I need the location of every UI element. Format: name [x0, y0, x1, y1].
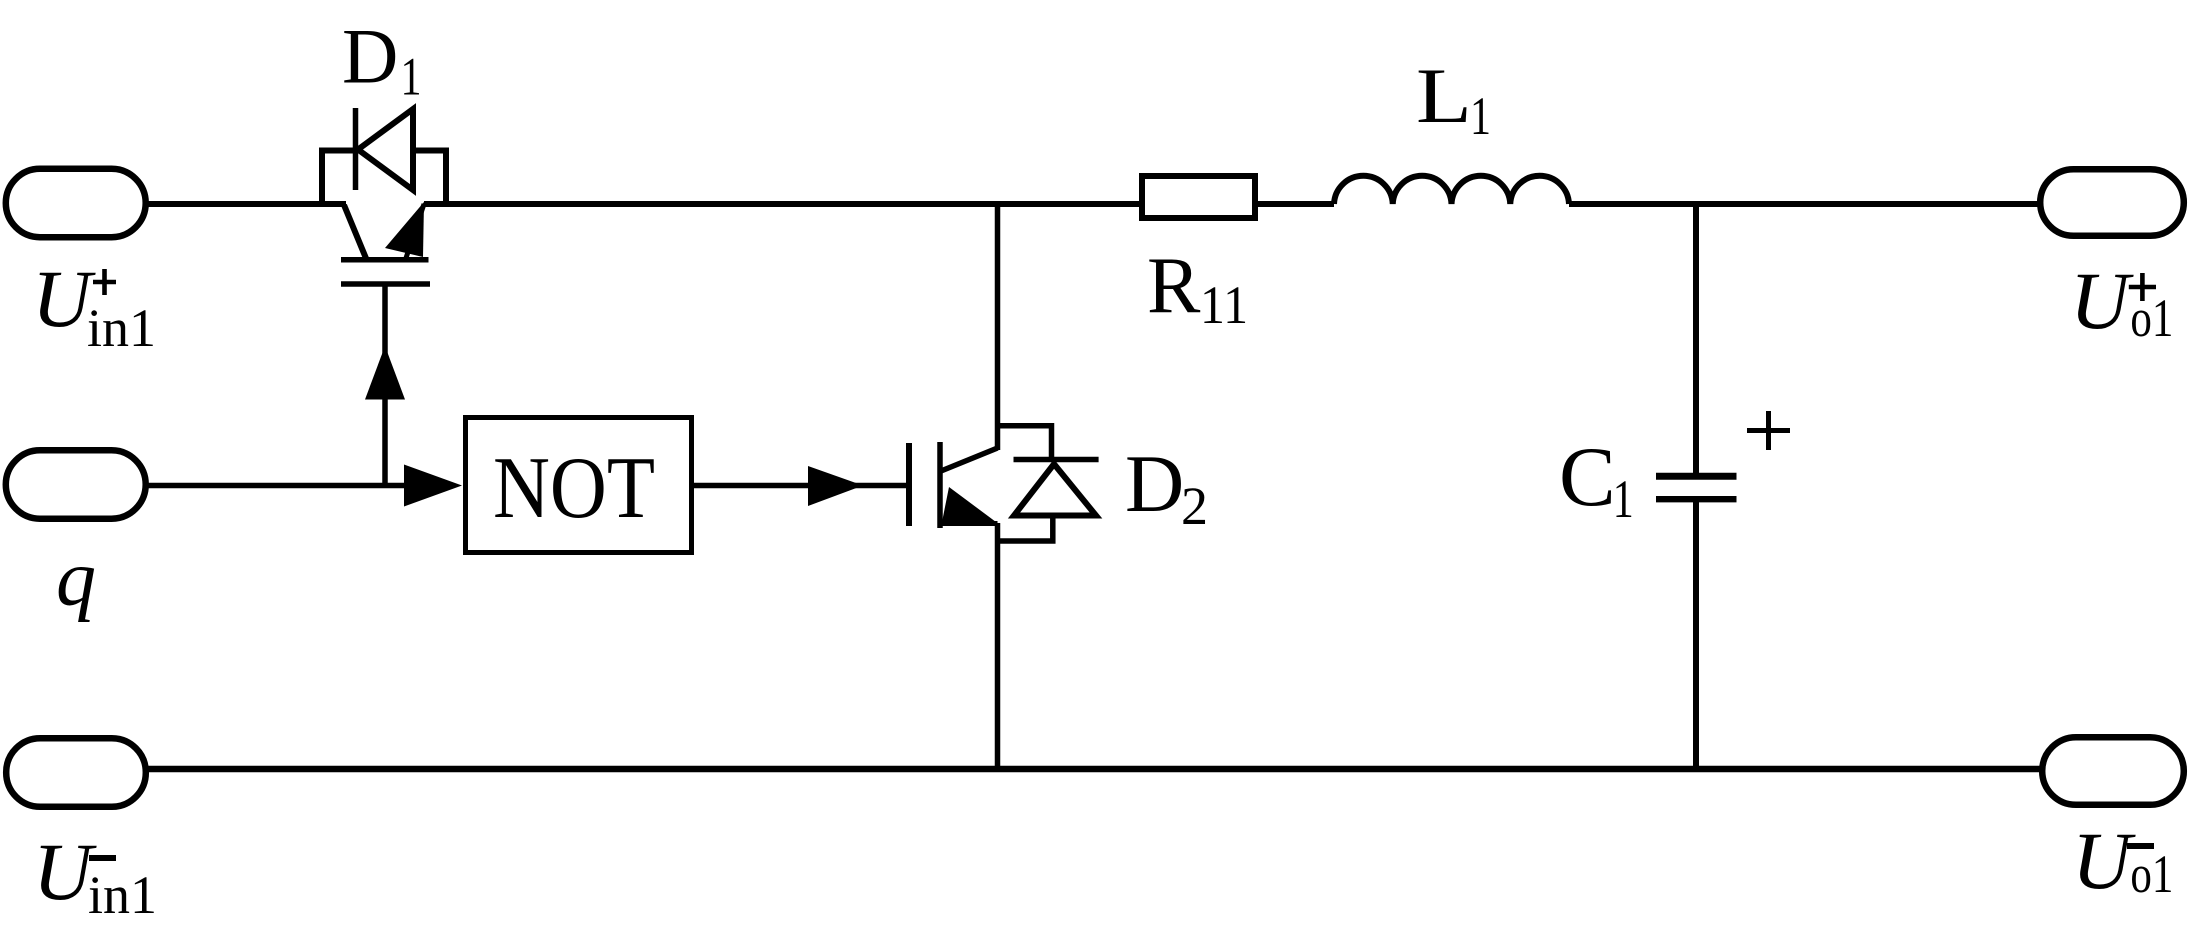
svg-text:1: 1	[401, 47, 422, 107]
diode D2	[998, 426, 1099, 541]
Q1 gate bar	[341, 281, 430, 287]
svg-text:NOT: NOT	[493, 440, 655, 537]
NOT gate box	[466, 418, 692, 553]
wire Q2 emitter	[995, 523, 1001, 772]
Q1 emitter lead	[406, 204, 424, 258]
svg-text:L: L	[1416, 52, 1472, 139]
transistor Q2	[909, 442, 998, 772]
wire R11 to L1	[1255, 201, 1334, 207]
wire top-left	[145, 201, 346, 207]
wire C1 bottom	[1693, 502, 1699, 772]
svg-text:D: D	[342, 13, 398, 100]
svg-text:D: D	[1125, 438, 1184, 529]
svg-text:in1: in1	[87, 298, 156, 358]
svg-text:o1: o1	[2130, 288, 2173, 348]
svg-text:2: 2	[1181, 476, 1208, 536]
label D2	[1125, 438, 1208, 536]
wire L1 to terminal	[1569, 201, 2042, 207]
Q1 body bar	[341, 257, 429, 263]
C1 plus sign	[1747, 411, 1790, 450]
label D1	[342, 13, 422, 107]
wire C1 top	[1693, 204, 1699, 473]
terminal U+in1	[6, 169, 146, 237]
arrow up to Q1 gate	[365, 346, 405, 400]
svg-text:C: C	[1559, 430, 1616, 524]
wire D1 loop left	[322, 151, 354, 208]
diode D1 cathode bar	[353, 108, 359, 190]
arrow into NOT	[404, 465, 462, 507]
inductor L1	[1334, 176, 1569, 204]
label U-in1	[33, 826, 157, 925]
resistor R11	[1142, 176, 1255, 218]
svg-text:11: 11	[1200, 275, 1248, 335]
label U+o1	[2070, 255, 2173, 348]
wire Q2 collector	[995, 204, 1001, 450]
Q2 emitter lead	[941, 521, 998, 526]
svg-text:1: 1	[1470, 86, 1491, 146]
D2 cathode bar	[1014, 457, 1099, 463]
label L1	[1416, 52, 1491, 146]
D2 triangle	[1014, 464, 1096, 516]
wire D1 loop right	[412, 151, 446, 208]
wire top rail Q1 to R11	[424, 201, 1142, 207]
arrow to Q2 gate	[808, 466, 863, 506]
label U-o1	[2072, 815, 2173, 906]
terminal q	[6, 450, 146, 518]
svg-text:U: U	[2070, 255, 2134, 346]
wire NOT to Q2 gate	[691, 483, 906, 489]
terminal U-o1	[2042, 737, 2184, 805]
svg-text:o1: o1	[2130, 844, 2173, 904]
wire D2 bottom jog	[998, 516, 1053, 541]
label U+in1	[32, 253, 156, 358]
transistor Q1	[322, 108, 446, 488]
label R11	[1147, 242, 1248, 335]
C1 plate top	[1656, 473, 1737, 480]
svg-text:U: U	[2072, 815, 2136, 906]
svg-text:in1: in1	[88, 865, 157, 925]
wire D2 top jog	[998, 426, 1052, 459]
capacitor C1	[1656, 204, 1737, 772]
svg-text:q: q	[56, 535, 96, 623]
wire q to NOT	[145, 483, 408, 489]
svg-text:R: R	[1147, 242, 1201, 330]
C1 plate bottom	[1656, 496, 1737, 502]
Q2 collector lead	[941, 448, 998, 471]
label C1	[1559, 430, 1634, 529]
terminal U+o1	[2040, 169, 2184, 236]
Q1 emitter arrow	[385, 202, 424, 257]
terminal U-in1	[6, 738, 146, 807]
Q2 gate bar	[906, 443, 912, 526]
wire bottom rail	[145, 766, 2042, 773]
diode D1 triangle	[358, 109, 413, 190]
Q2 body bar	[937, 442, 943, 528]
Q1 collector lead	[344, 205, 367, 260]
Q1 gate lead	[382, 287, 388, 489]
svg-text:1: 1	[1613, 469, 1634, 529]
Q2 emitter arrow	[942, 487, 996, 522]
